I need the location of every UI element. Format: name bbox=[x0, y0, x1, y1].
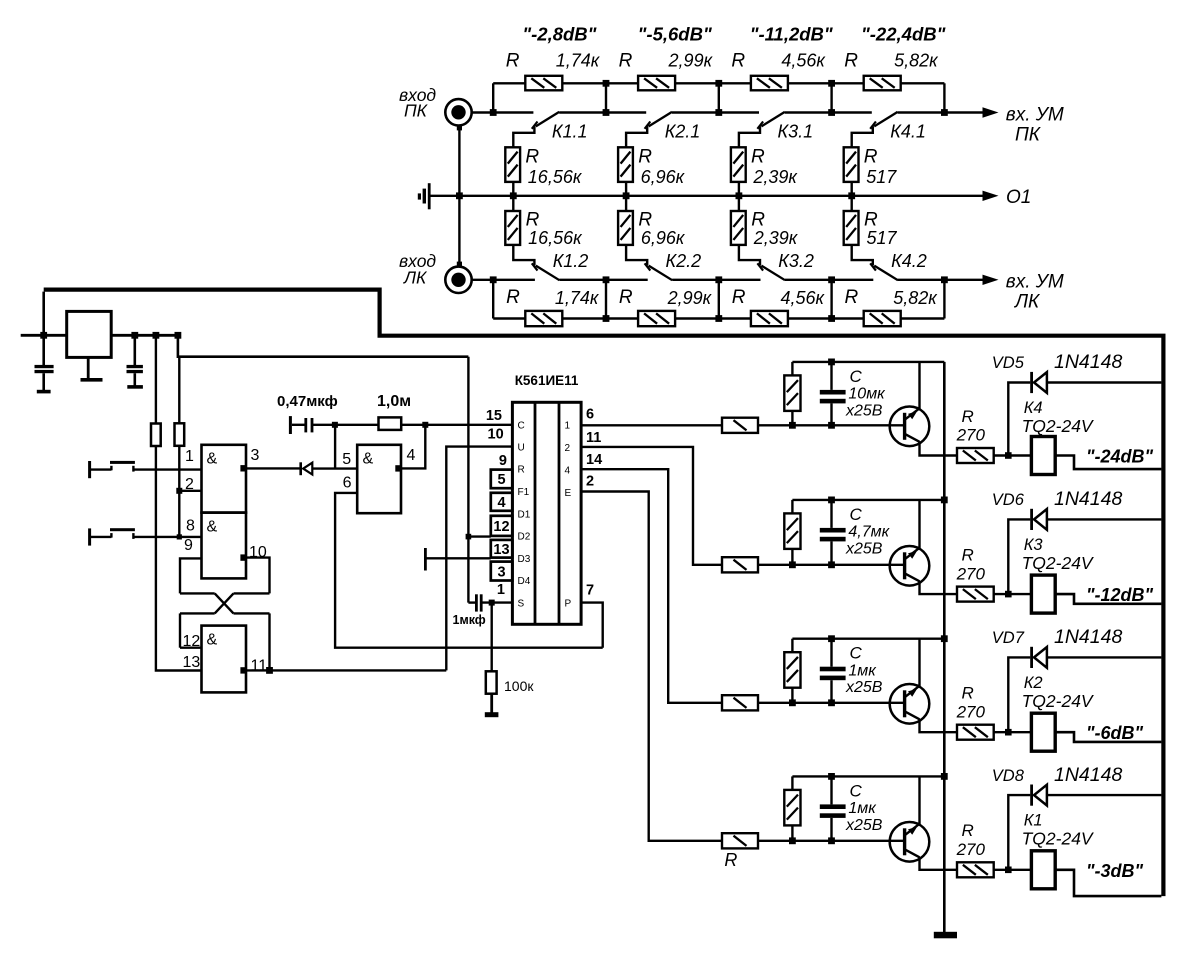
logic gate DD1.4 (&) pins 5,6 out 4 bbox=[357, 445, 401, 513]
collector wire VT2 to R 270 bbox=[920, 581, 958, 594]
junction dot on rail bbox=[510, 192, 517, 199]
resistor R 5,82к (bottom series) bbox=[832, 317, 864, 319]
wire: column riser bottom with junction dots bbox=[830, 280, 832, 319]
svg-text:1,0м: 1,0м bbox=[377, 393, 411, 410]
counter DD2 К561ИЕ11 (box) bbox=[512, 402, 581, 624]
svg-text:"-5,6dB": "-5,6dB" bbox=[638, 23, 712, 44]
svg-text:4: 4 bbox=[565, 466, 571, 477]
node: gate 3 output dot bbox=[240, 465, 246, 471]
pull-up resistor R (left) bbox=[155, 335, 157, 423]
transistor VT3 bbox=[890, 684, 930, 724]
svg-text:1N4148: 1N4148 bbox=[1054, 764, 1122, 786]
resistor R 270 row 3 bbox=[957, 725, 994, 740]
svg-text:6,96к: 6,96к bbox=[641, 167, 686, 187]
svg-text:TQ2-24V: TQ2-24V bbox=[1022, 691, 1095, 711]
svg-text:10мк: 10мк bbox=[848, 386, 886, 403]
svg-text:"-12dB": "-12dB" bbox=[1086, 585, 1154, 605]
wire: diode to gate pin 5 bbox=[312, 467, 357, 469]
connector: вход ЛК (RCA jack) bbox=[445, 267, 471, 293]
logic gate DD1.1 (&) pins 1,2 out 3 bbox=[202, 445, 247, 513]
wire: gate pin 6 to counter pin 7 row bbox=[335, 493, 603, 648]
ground symbol left of rail bbox=[428, 183, 431, 209]
svg-text:3: 3 bbox=[497, 564, 505, 580]
svg-text:1: 1 bbox=[497, 582, 505, 598]
resistor (pull-down) row 3 bbox=[791, 639, 793, 653]
svg-text:&: & bbox=[207, 519, 218, 536]
svg-text:2,99к: 2,99к bbox=[667, 288, 713, 308]
svg-text:R: R bbox=[732, 287, 746, 308]
push button SB1 bbox=[88, 461, 91, 478]
resistor R 6,96к (upper shunt) bbox=[618, 147, 633, 182]
resistor R 270 row 1 bbox=[957, 448, 994, 463]
svg-text:ЛК: ЛК bbox=[403, 268, 428, 288]
switch К4.2 contact bbox=[852, 245, 873, 266]
svg-text:1: 1 bbox=[185, 448, 194, 465]
diode VD6 1N4148 bbox=[1008, 519, 1030, 594]
wire: relay К2 return to +24V bus bbox=[1055, 732, 1161, 742]
collector wire VT1 to R 270 bbox=[920, 441, 958, 455]
junction dot on rail bbox=[736, 192, 743, 199]
boxed pin 13 bbox=[491, 540, 513, 558]
wire: column riser bottom with junction dots bbox=[718, 280, 720, 319]
wire: switch К1.1 to shunt resistor bbox=[513, 126, 534, 147]
boxed pin 5 bbox=[491, 470, 513, 489]
svg-text:16,56к: 16,56к bbox=[528, 228, 583, 248]
regulator ground pin bbox=[87, 357, 90, 379]
svg-text:1: 1 bbox=[565, 421, 571, 432]
svg-text:R: R bbox=[506, 51, 520, 72]
svg-text:5: 5 bbox=[342, 451, 351, 468]
svg-text:&: & bbox=[207, 632, 218, 649]
node: S pin junction bbox=[489, 600, 495, 606]
svg-text:2,39к: 2,39к bbox=[752, 167, 798, 187]
wire: column riser top with junction dots bbox=[718, 83, 720, 112]
svg-text:270: 270 bbox=[956, 426, 986, 445]
node: relay feed junction row 4 bbox=[1005, 867, 1012, 874]
ground rail y196 to О1 arrow bbox=[429, 195, 983, 197]
logic gate DD1.2 (&) pins 8,9 out 10 bbox=[202, 513, 247, 579]
logic gate DD1.3 (&) pins 12,13 out 11 bbox=[202, 626, 247, 693]
svg-text:10: 10 bbox=[488, 426, 504, 442]
junction dot on ground bus bbox=[941, 773, 948, 780]
svg-text:R: R bbox=[864, 147, 878, 168]
svg-text:5,82к: 5,82к bbox=[893, 288, 938, 308]
resistor (pull-down) row 1 bbox=[791, 362, 793, 376]
svg-text:"-2,8dB": "-2,8dB" bbox=[522, 23, 596, 44]
svg-text:R: R bbox=[525, 147, 539, 168]
ground bus vertical bbox=[943, 362, 946, 933]
svg-text:2: 2 bbox=[185, 476, 194, 493]
wire: SB1 to gate pin 1 bbox=[133, 468, 201, 470]
svg-text:R: R bbox=[731, 51, 745, 72]
resistor R 16,56к (upper shunt) bbox=[505, 147, 520, 182]
row 4 ground rail bbox=[792, 775, 944, 777]
svg-text:"-22,4dB": "-22,4dB" bbox=[861, 23, 946, 44]
ground at 100к bbox=[490, 694, 493, 713]
switch К2.2 contact bbox=[626, 245, 647, 266]
wire: top-right corner to output node bbox=[943, 83, 945, 112]
wire: switch К3.1 to shunt resistor bbox=[739, 126, 760, 147]
svg-text:14: 14 bbox=[586, 452, 602, 468]
svg-text:R: R bbox=[962, 407, 974, 426]
resistor R 517 (upper shunt) bbox=[844, 147, 859, 182]
transistor VT2 bbox=[890, 546, 930, 586]
svg-text:ЛК: ЛК bbox=[1013, 292, 1041, 313]
svg-text:К4.2: К4.2 bbox=[891, 251, 927, 271]
emitter wire VT2 to rail bbox=[918, 500, 920, 548]
svg-text:7: 7 bbox=[586, 583, 594, 599]
capacitor 0,47мкф (oscillator) bbox=[289, 416, 292, 434]
collector wire VT3 to R 270 bbox=[920, 719, 958, 732]
wire: +V drop to timing cap and D2 bbox=[467, 357, 469, 603]
svg-text:D3: D3 bbox=[518, 554, 531, 565]
relay К1 TQ2-24V coil bbox=[1031, 851, 1055, 889]
resistor R 517 (lower shunt) bbox=[851, 196, 853, 211]
diode VD (between gates) bbox=[299, 462, 302, 475]
svg-text:К3.1: К3.1 bbox=[778, 122, 814, 142]
resistor R 1,74к (top series) bbox=[493, 82, 525, 84]
svg-text:D4: D4 bbox=[518, 576, 531, 587]
wire: switch К2.1 to shunt resistor bbox=[626, 126, 647, 147]
arrow and label О1 bbox=[983, 191, 999, 201]
svg-text:4,56к: 4,56к bbox=[780, 288, 825, 308]
junction dot on ground bus bbox=[941, 635, 948, 642]
svg-text:К4: К4 bbox=[1024, 399, 1043, 417]
svg-text:1мкф: 1мкф bbox=[453, 613, 486, 627]
resistor R 4,56к (bottom series) bbox=[719, 317, 751, 319]
wire: left pull-up down to gate pin 13 bbox=[156, 446, 202, 671]
boxed pin 3 bbox=[491, 562, 513, 581]
svg-text:1N4148: 1N4148 bbox=[1054, 351, 1122, 373]
svg-text:К1: К1 bbox=[1024, 812, 1043, 830]
capacitor C output (right of regulator) bbox=[134, 335, 137, 365]
node: relay feed junction row 2 bbox=[1005, 591, 1012, 598]
resistor R 2,99к (bottom series) bbox=[606, 317, 638, 319]
svg-text:R: R bbox=[619, 287, 633, 308]
svg-text:R: R bbox=[724, 850, 737, 870]
capacitor C 1мк х25В row 4 bbox=[830, 776, 832, 804]
wire: jack stems vertical x459 through ground rail bbox=[458, 126, 460, 267]
svg-text:вх. УМ: вх. УМ bbox=[1006, 272, 1064, 293]
resistor R 16,56к (lower shunt) bbox=[512, 196, 514, 211]
wire: relay К1 return to +24V bus bbox=[1055, 870, 1161, 896]
wire: pin 14 (Q4) to driver 3 bbox=[581, 469, 722, 703]
svg-text:270: 270 bbox=[956, 702, 986, 721]
row 1 ground rail bbox=[792, 361, 944, 363]
wire: switch К4.1 to shunt resistor bbox=[852, 126, 873, 147]
resistor R 1,74к (bottom series) bbox=[493, 317, 525, 319]
svg-text:E: E bbox=[565, 488, 572, 499]
svg-text:1N4148: 1N4148 bbox=[1054, 488, 1122, 510]
svg-text:11: 11 bbox=[251, 658, 268, 675]
wire: pin 2 (Q8) to driver 4 bbox=[581, 492, 722, 841]
svg-text:R: R bbox=[845, 287, 859, 308]
svg-text:5: 5 bbox=[497, 472, 505, 488]
svg-text:К4.1: К4.1 bbox=[890, 122, 926, 142]
switch К1.2 contact bbox=[513, 245, 534, 266]
collector wire VT4 to R 270 bbox=[920, 857, 958, 870]
wire: pin 11 (Q2) to driver 2 bbox=[581, 447, 722, 565]
svg-text:R: R bbox=[844, 51, 858, 72]
svg-text:&: & bbox=[207, 451, 218, 468]
wire: column riser top with junction dots bbox=[830, 83, 832, 112]
transistor VT1 bbox=[890, 407, 930, 447]
wire: left risers to series rows bbox=[492, 83, 494, 112]
svg-text:VD5: VD5 bbox=[992, 354, 1025, 372]
switch К3.1 contact bbox=[672, 111, 759, 113]
driver row 3: base resistor R bbox=[722, 695, 758, 710]
svg-text:2,39к: 2,39к bbox=[753, 228, 799, 248]
svg-text:R: R bbox=[638, 147, 652, 168]
node: gate 4 output dot bbox=[395, 465, 401, 471]
svg-text:2: 2 bbox=[586, 474, 594, 490]
svg-text:6: 6 bbox=[586, 407, 594, 423]
svg-text:TQ2-24V: TQ2-24V bbox=[1022, 416, 1095, 436]
svg-text:C: C bbox=[518, 421, 525, 432]
svg-text:D2: D2 bbox=[518, 532, 531, 543]
svg-text:"-3dB": "-3dB" bbox=[1086, 861, 1144, 881]
svg-text:C: C bbox=[850, 505, 863, 524]
emitter wire VT1 to rail bbox=[918, 362, 920, 409]
svg-text:ПК: ПК bbox=[1015, 124, 1042, 145]
wire: ПК output line and arrow вх. УМ ПК bbox=[898, 111, 945, 113]
svg-text:К2.1: К2.1 bbox=[665, 122, 701, 142]
driver row 4: base resistor R bbox=[722, 833, 758, 848]
wire: relay К4 return to +24V bus bbox=[1055, 456, 1161, 470]
svg-text:D1: D1 bbox=[518, 509, 531, 520]
svg-text:6,96к: 6,96к bbox=[641, 228, 686, 248]
svg-text:х25В: х25В bbox=[845, 402, 883, 419]
svg-text:"-11,2dB": "-11,2dB" bbox=[750, 23, 833, 44]
resistor R 4,56к (top series) bbox=[719, 82, 751, 84]
ground bar at bus bottom bbox=[934, 932, 957, 939]
svg-text:х25В: х25В bbox=[845, 679, 883, 696]
junction dot on ground rail at jack stem bbox=[456, 192, 463, 199]
svg-text:2,99к: 2,99к bbox=[668, 51, 714, 71]
diode VD5 1N4148 bbox=[1008, 383, 1030, 456]
resistor R 270 row 4 bbox=[957, 862, 994, 877]
diode VD7 1N4148 bbox=[1008, 657, 1030, 732]
junction dot on rail bbox=[848, 192, 855, 199]
switch К1.1 contact bbox=[493, 111, 533, 113]
wire: +24V thick feed, top-left to right bus bbox=[44, 290, 1164, 897]
svg-text:4,7мк: 4,7мк bbox=[848, 524, 890, 541]
svg-text:VD6: VD6 bbox=[992, 491, 1025, 509]
svg-text:12: 12 bbox=[183, 633, 201, 650]
resistor R 2,39к (upper shunt) bbox=[731, 147, 746, 182]
diode VD8 1N4148 bbox=[1008, 795, 1030, 870]
svg-text:К1.2: К1.2 bbox=[553, 251, 589, 271]
resistor 100к bbox=[491, 603, 493, 672]
svg-text:К2.2: К2.2 bbox=[666, 251, 702, 271]
svg-text:P: P bbox=[565, 599, 572, 610]
svg-text:270: 270 bbox=[956, 840, 986, 859]
svg-text:R: R bbox=[962, 545, 974, 564]
wire: to gate pin 12 bbox=[180, 647, 202, 649]
node: cap to pin5 junction bbox=[332, 422, 338, 428]
svg-text:12: 12 bbox=[493, 519, 509, 535]
capacitor C 4,7мк х25В row 2 bbox=[830, 500, 832, 528]
node dots on ПК line bbox=[490, 109, 497, 116]
svg-text:VD7: VD7 bbox=[992, 629, 1025, 647]
wire: column riser bottom with junction dots bbox=[605, 280, 607, 319]
wire: bottom-right corner to output node bbox=[943, 280, 945, 319]
svg-text:R: R bbox=[619, 51, 633, 72]
svg-text:C: C bbox=[850, 367, 863, 386]
wire: pin 6 (Q1) to driver 1 bbox=[581, 424, 722, 426]
wire: pin 7 (P) to gates row bbox=[581, 603, 603, 648]
emitter wire VT3 to rail bbox=[918, 639, 920, 686]
svg-text:1,74к: 1,74к bbox=[556, 51, 601, 71]
svg-text:1N4148: 1N4148 bbox=[1054, 626, 1122, 648]
svg-text:13: 13 bbox=[183, 654, 201, 671]
svg-text:R: R bbox=[518, 465, 525, 476]
svg-text:"-24dB": "-24dB" bbox=[1086, 447, 1154, 467]
svg-text:100к: 100к bbox=[504, 678, 534, 694]
wire: right pull-up to pins 2 and 8 bbox=[178, 446, 180, 537]
wire: D3 (pin 13) external terminal bbox=[425, 557, 490, 559]
node: feedback junction bbox=[422, 422, 428, 428]
svg-text:270: 270 bbox=[956, 564, 986, 583]
svg-text:3: 3 bbox=[251, 447, 260, 464]
row 2 ground rail bbox=[792, 499, 944, 501]
svg-text:ПК: ПК bbox=[404, 101, 429, 121]
svg-text:9: 9 bbox=[184, 537, 193, 554]
svg-text:2: 2 bbox=[565, 443, 571, 454]
resistor R 5,82к (top series) bbox=[832, 82, 864, 84]
svg-text:К3: К3 bbox=[1024, 536, 1044, 554]
svg-text:К3.2: К3.2 bbox=[778, 251, 814, 271]
svg-text:517: 517 bbox=[867, 228, 898, 248]
junction dot on rail bbox=[623, 192, 630, 199]
svg-text:S: S bbox=[518, 598, 525, 609]
+V rail jog to logic supply bbox=[153, 332, 160, 339]
emitter wire VT4 to rail bbox=[918, 776, 920, 824]
wire: SB2 to gate pin 8 bbox=[133, 536, 201, 538]
wire: ЛК jack to node, y280 bbox=[472, 279, 494, 281]
svg-text:TQ2-24V: TQ2-24V bbox=[1022, 829, 1095, 849]
svg-text:517: 517 bbox=[866, 167, 897, 187]
pull-up resistor R (right) bbox=[178, 357, 180, 424]
svg-text:F1: F1 bbox=[518, 487, 530, 498]
wire: column riser top with junction dots bbox=[605, 83, 607, 112]
capacitor C input (left) bbox=[42, 292, 45, 366]
svg-text:1мк: 1мк bbox=[848, 800, 877, 817]
svg-text:6: 6 bbox=[343, 475, 352, 492]
voltage regulator U (box) bbox=[21, 334, 67, 337]
resistor R 2,99к (top series) bbox=[606, 82, 638, 84]
wire: ПК jack to node, y112 bbox=[472, 111, 494, 113]
svg-text:8: 8 bbox=[186, 518, 195, 535]
svg-text:О1: О1 bbox=[1006, 187, 1031, 208]
svg-text:13: 13 bbox=[493, 542, 509, 558]
svg-text:R: R bbox=[962, 684, 974, 703]
svg-text:16,56к: 16,56к bbox=[528, 167, 583, 187]
svg-text:5,82к: 5,82к bbox=[894, 51, 939, 71]
wire: output 3 to diode bbox=[246, 467, 300, 469]
svg-text:C: C bbox=[850, 644, 863, 663]
row 3 ground rail bbox=[792, 638, 944, 640]
connector: вход ПК (RCA jack) bbox=[445, 99, 471, 125]
node: relay feed junction row 3 bbox=[1005, 729, 1012, 736]
wire: junction down to pin 5 wire bbox=[334, 425, 336, 469]
svg-text:х25В: х25В bbox=[845, 540, 883, 557]
svg-text:К561ИЕ11: К561ИЕ11 bbox=[515, 373, 579, 388]
svg-text:9: 9 bbox=[499, 453, 507, 469]
capacitor C 1мк х25В row 3 bbox=[830, 639, 832, 667]
switch К3.2 contact bbox=[739, 245, 760, 266]
transistor VT4 bbox=[890, 822, 930, 862]
node dot on ЛК line bbox=[490, 276, 497, 283]
svg-text:вх. УМ: вх. УМ bbox=[1006, 104, 1064, 125]
wire: D2 (pin 12) tie to +V drop bbox=[468, 535, 490, 537]
svg-text:R: R bbox=[962, 821, 974, 840]
svg-text:4: 4 bbox=[407, 447, 416, 464]
node: relay feed junction row 1 bbox=[1005, 452, 1012, 459]
switch К2.1 contact bbox=[559, 111, 646, 113]
wire: ЛК output line and arrow вх. УМ ЛК bbox=[898, 279, 984, 281]
node: gate 11 output dot bbox=[240, 667, 246, 673]
svg-text:4: 4 bbox=[497, 495, 505, 511]
wire: resistor to counter pin 15 (C) bbox=[401, 424, 512, 426]
resistor R 270 row 2 bbox=[957, 587, 994, 602]
boxed pin 4 bbox=[491, 493, 513, 511]
capacitor 1мкф (power-on set) bbox=[468, 601, 475, 603]
svg-text:х25В: х25В bbox=[845, 817, 883, 834]
wire: feedback to gate output 4 bbox=[401, 425, 425, 469]
svg-text:VD8: VD8 bbox=[992, 767, 1025, 785]
relay К3 TQ2-24V coil bbox=[1031, 575, 1055, 613]
svg-text:R: R bbox=[506, 287, 520, 308]
resistor R 2,39к (lower shunt) bbox=[738, 196, 740, 211]
driver row 1: base resistor R bbox=[722, 418, 758, 433]
switch К4.1 contact bbox=[785, 111, 872, 113]
svg-text:К2: К2 bbox=[1024, 674, 1043, 692]
boxed pin 12 bbox=[491, 516, 513, 536]
relay К4 TQ2-24V coil bbox=[1031, 437, 1055, 475]
svg-text:C: C bbox=[850, 781, 863, 800]
svg-text:&: & bbox=[363, 451, 374, 468]
capacitor C 10мк х25В row 1 bbox=[830, 362, 832, 390]
svg-text:4,56к: 4,56к bbox=[781, 51, 826, 71]
svg-text:U: U bbox=[518, 442, 525, 453]
resistor 1,0м (oscillator) bbox=[335, 424, 379, 426]
svg-text:15: 15 bbox=[486, 408, 502, 424]
svg-text:1мк: 1мк bbox=[848, 662, 877, 679]
node: gate 10 output dot bbox=[240, 554, 246, 560]
svg-text:R: R bbox=[751, 147, 765, 168]
push button SB2 bbox=[88, 528, 91, 545]
resistor (pull-down) row 2 bbox=[791, 500, 793, 514]
driver row 2: base resistor R bbox=[722, 557, 758, 572]
RS trigger cross-coupling wires bbox=[180, 558, 202, 593]
svg-text:0,47мкф: 0,47мкф bbox=[277, 393, 338, 410]
relay К2 TQ2-24V coil bbox=[1031, 713, 1055, 751]
svg-text:1,74к: 1,74к bbox=[555, 288, 600, 308]
wire: pin 2 stub bbox=[179, 490, 201, 492]
svg-text:К1.1: К1.1 bbox=[552, 122, 588, 142]
wire: output 11 to counter pin 10 (U) bbox=[246, 669, 446, 671]
svg-text:11: 11 bbox=[586, 430, 601, 446]
resistor R 6,96к (lower shunt) bbox=[625, 196, 627, 211]
wire: relay К3 return to +24V bus bbox=[1055, 594, 1161, 604]
svg-text:"-6dB": "-6dB" bbox=[1086, 723, 1144, 743]
svg-text:TQ2-24V: TQ2-24V bbox=[1022, 553, 1095, 573]
junction dot on ground bus bbox=[941, 497, 948, 504]
resistor (pull-down) row 4 bbox=[791, 776, 793, 790]
